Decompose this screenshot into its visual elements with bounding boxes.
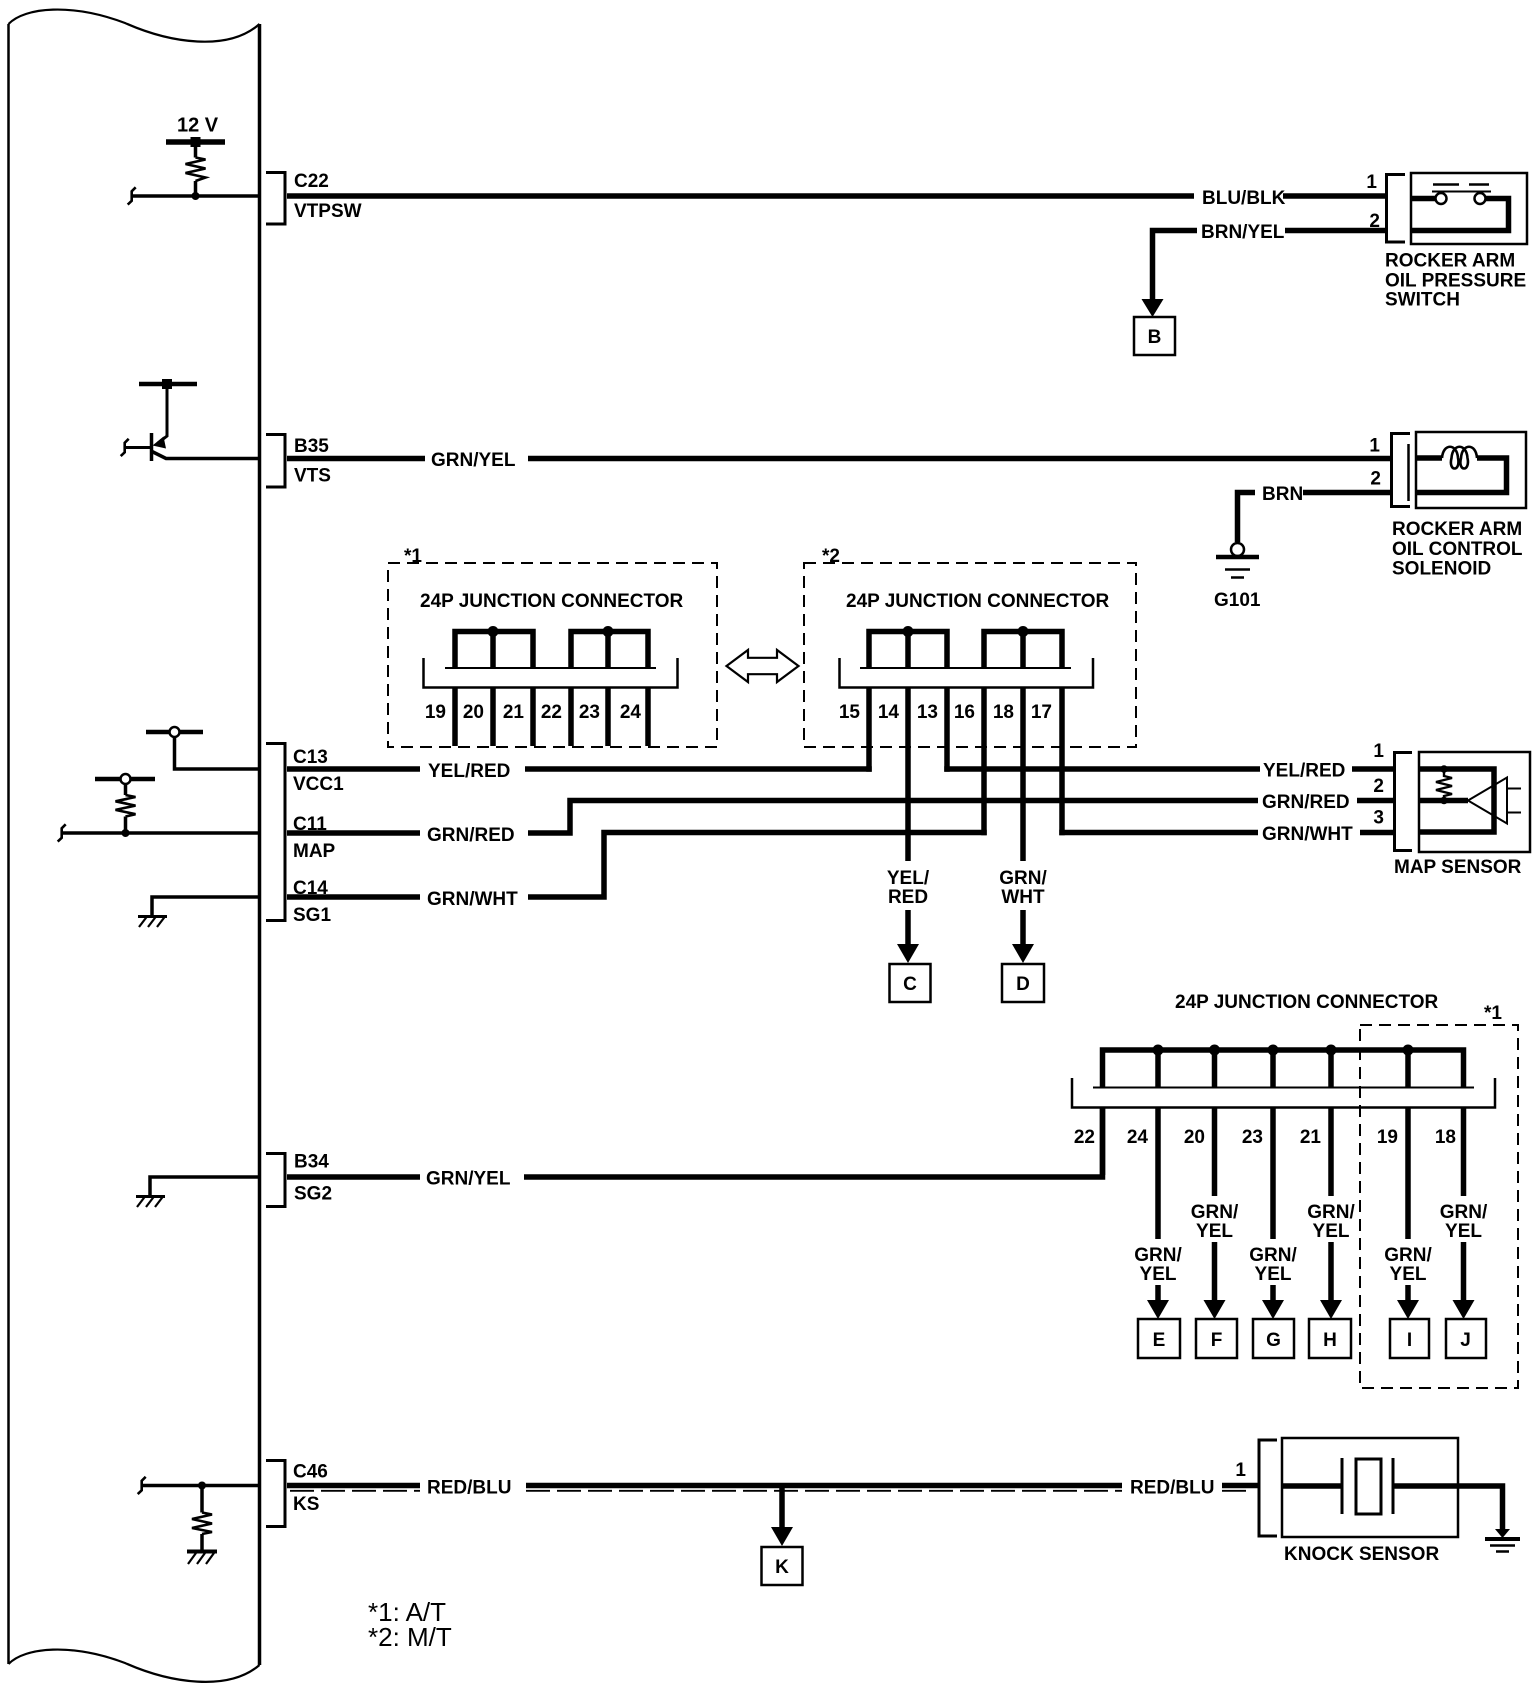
svg-text:BLU/BLK: BLU/BLK [1202, 188, 1286, 209]
svg-text:13: 13 [917, 702, 938, 723]
transistor emitter lead [152, 452, 259, 459]
wire GRN/RED (C11 to MAP pin 2) [287, 801, 1258, 834]
svg-text:SOLENOID: SOLENOID [1392, 559, 1491, 580]
svg-text:KNOCK SENSOR: KNOCK SENSOR [1284, 1544, 1439, 1565]
junction 2 bridge staple A (pins 15-13) [869, 632, 947, 669]
base lead hook [121, 439, 129, 456]
svg-text:17: 17 [1031, 702, 1052, 723]
junction 2 connector body tray [860, 667, 1071, 669]
svg-text:YEL: YEL [1390, 1264, 1427, 1285]
svg-text:YEL: YEL [1140, 1264, 1177, 1285]
ground (KS internal) [187, 1550, 217, 1554]
MAP internal signal wire [1419, 798, 1468, 804]
svg-text:24: 24 [620, 702, 642, 723]
connection box H [1309, 1319, 1351, 1358]
arrow to H [1328, 1242, 1334, 1301]
svg-text:20: 20 [463, 702, 484, 723]
svg-text:18: 18 [1435, 1127, 1456, 1148]
C11 supply tap ring [121, 774, 131, 784]
svg-text:G101: G101 [1214, 590, 1261, 611]
svg-text:OIL CONTROL: OIL CONTROL [1392, 539, 1523, 560]
wire end hook [128, 187, 136, 204]
VCC1 supply bar [146, 730, 203, 735]
ground (knock sensor) [1495, 1529, 1510, 1538]
switch contact circle right [1475, 193, 1486, 204]
svg-text:SWITCH: SWITCH [1385, 290, 1460, 311]
connection box C [890, 964, 931, 1002]
MAP amplifier triangle [1468, 778, 1507, 824]
arrow to D [1020, 910, 1026, 945]
solenoid internal wire loop [1416, 458, 1507, 493]
svg-text:GRN/YEL: GRN/YEL [426, 1169, 511, 1190]
transistor collector arrowhead [153, 437, 167, 449]
svg-text:22: 22 [541, 702, 562, 723]
svg-text:GRN/: GRN/ [1191, 1202, 1239, 1223]
svg-text:J: J [1460, 1330, 1471, 1351]
knock connector bracket [1259, 1440, 1277, 1536]
connection box G [1253, 1319, 1294, 1358]
ECM boundary right edge [258, 24, 262, 1665]
svg-text:YEL/RED: YEL/RED [428, 761, 510, 782]
svg-text:ROCKER ARM: ROCKER ARM [1385, 251, 1515, 272]
12V supply tap square [191, 137, 201, 147]
svg-text:C: C [903, 974, 917, 995]
wire end hook [58, 824, 66, 841]
ECM boundary left edge [7, 24, 10, 1664]
12V supply bar [166, 139, 225, 145]
svg-text:21: 21 [1300, 1127, 1322, 1148]
svg-text:21: 21 [503, 702, 525, 723]
transistor Q (collector lead) [158, 389, 167, 443]
svg-text:MAP: MAP [293, 841, 336, 862]
svg-text:2: 2 [1369, 211, 1380, 232]
wire C13 internal [175, 737, 260, 769]
svg-text:12 V: 12 V [177, 115, 219, 137]
arrow to C [905, 910, 911, 945]
connector B35 bracket [266, 435, 285, 488]
junction 3 pins below [1103, 1107, 1464, 1239]
svg-text:GRN/YEL: GRN/YEL [431, 450, 516, 471]
arrow to K [779, 1488, 785, 1528]
node junction dot [198, 1482, 206, 1490]
solenoid coil L [1442, 447, 1477, 469]
svg-text:GRN/RED: GRN/RED [427, 825, 515, 846]
solenoid connector mating line [1407, 444, 1410, 501]
svg-text:2: 2 [1373, 776, 1384, 797]
svg-text:YEL: YEL [1196, 1221, 1233, 1242]
junction 1 pins below [455, 687, 648, 746]
svg-text:GRN/: GRN/ [1307, 1202, 1355, 1223]
svg-text:3: 3 [1373, 808, 1384, 829]
arrow to G [1270, 1285, 1276, 1301]
wire RED/BLU (C46 to knock sensor) [287, 1483, 1258, 1489]
transistor base bar [150, 433, 154, 461]
svg-text:18: 18 [993, 702, 1014, 723]
svg-text:B: B [1148, 327, 1162, 348]
svg-text:E: E [1153, 1330, 1166, 1351]
svg-text:ROCKER ARM: ROCKER ARM [1392, 519, 1522, 540]
svg-text:GRN/: GRN/ [1384, 1245, 1432, 1266]
svg-text:23: 23 [579, 702, 600, 723]
shield dashed line [290, 1490, 1252, 1492]
svg-text:*1: *1 [404, 546, 422, 567]
svg-text:1: 1 [1235, 1460, 1246, 1481]
svg-text:MAP SENSOR: MAP SENSOR [1394, 857, 1522, 878]
MAP sensor box [1419, 752, 1530, 852]
svg-text:C46: C46 [293, 1462, 328, 1483]
svg-text:B35: B35 [294, 436, 329, 457]
ECM boundary top torn edge [9, 10, 260, 42]
svg-text:23: 23 [1242, 1127, 1263, 1148]
svg-text:GRN/WHT: GRN/WHT [427, 889, 518, 910]
svg-text:VTS: VTS [294, 466, 331, 487]
svg-text:22: 22 [1074, 1127, 1095, 1148]
svg-text:*2: M/T: *2: M/T [368, 1622, 452, 1652]
arrow to J [1461, 1242, 1467, 1301]
wire B34 internal [150, 1177, 259, 1196]
wire BRN (solenoid pin 2 to G101) [1238, 493, 1392, 543]
MAP internal supply wire [1419, 769, 1494, 832]
svg-text:GRN/: GRN/ [1440, 1202, 1488, 1223]
wire BLU/BLK (C22 to switch pin 1) [287, 193, 1386, 199]
double arrow between junction connectors [727, 650, 799, 682]
resistor (MAP pull) [124, 784, 128, 833]
svg-text:F: F [1211, 1330, 1223, 1351]
svg-text:RED: RED [888, 887, 928, 908]
connection box B [1134, 317, 1175, 355]
junction 1 bridge staple A (pins 19-21) [455, 632, 533, 669]
ground G101 terminal ring [1231, 543, 1244, 556]
MAP connector bracket [1395, 753, 1413, 851]
svg-text:G: G [1266, 1330, 1281, 1351]
wire GRN/YEL (B35 to solenoid pin 1) [287, 456, 1391, 462]
svg-text:BRN: BRN [1262, 484, 1303, 505]
connection box I [1390, 1319, 1429, 1358]
knock sensor box [1282, 1438, 1458, 1537]
ground (SG2 internal) [136, 1195, 165, 1198]
svg-text:*2: *2 [822, 546, 840, 567]
svg-text:SG1: SG1 [293, 905, 331, 926]
connection box J [1446, 1319, 1486, 1358]
node junction dot on MAP wire [122, 829, 130, 837]
switch movable bar [1432, 191, 1491, 193]
svg-text:RED/BLU: RED/BLU [1130, 1478, 1214, 1499]
connection box D [1002, 964, 1044, 1002]
dashed box *1 (A/T pins) [1360, 1025, 1518, 1388]
ECM boundary bottom torn edge [9, 1650, 260, 1682]
svg-text:B34: B34 [294, 1152, 329, 1173]
connection box E [1138, 1319, 1180, 1358]
svg-text:14: 14 [878, 702, 900, 723]
svg-text:YEL: YEL [1313, 1221, 1350, 1242]
svg-text:OIL PRESSURE: OIL PRESSURE [1385, 271, 1526, 292]
switch internal wire pin2 loop [1411, 199, 1509, 231]
solenoid internal wire pin1 [1416, 455, 1442, 461]
svg-text:GRN/: GRN/ [1134, 1245, 1182, 1266]
transistor base lead [124, 446, 151, 449]
dashed box *2 [804, 563, 1136, 747]
junction 1 connector body tray [445, 667, 656, 669]
svg-text:24: 24 [1127, 1127, 1149, 1148]
resistor (KS internal) [200, 1486, 204, 1552]
svg-text:YEL/RED: YEL/RED [1263, 761, 1345, 782]
connector C13/C11/C14 bracket [266, 744, 285, 921]
wire C11 internal [61, 831, 259, 835]
ground (SG1 internal) [138, 915, 167, 918]
svg-text:YEL: YEL [1255, 1264, 1292, 1285]
junction 3 bus bar [1103, 1050, 1464, 1088]
connection box F [1196, 1319, 1237, 1358]
connector C22 bracket [266, 173, 285, 225]
svg-text:C22: C22 [294, 171, 329, 192]
svg-text:24P JUNCTION CONNECTOR: 24P JUNCTION CONNECTOR [1175, 992, 1439, 1013]
svg-text:VCC1: VCC1 [293, 774, 344, 795]
svg-text:2: 2 [1370, 469, 1381, 490]
svg-text:YEL: YEL [1445, 1221, 1482, 1242]
svg-text:KS: KS [293, 1494, 319, 1515]
svg-text:*1: *1 [1484, 1003, 1502, 1024]
rocker arm oil control solenoid box [1416, 432, 1526, 508]
junction 3 bus taps [1158, 1050, 1408, 1088]
svg-text:16: 16 [954, 702, 975, 723]
connector C46 bracket [266, 1461, 285, 1527]
wire C14 internal [152, 897, 259, 916]
junction 1 bridge staple B (pins 22-24) [571, 632, 648, 669]
solenoid connector bracket [1392, 434, 1411, 507]
svg-text:24P JUNCTION CONNECTOR: 24P JUNCTION CONNECTOR [420, 591, 684, 612]
svg-text:GRN/: GRN/ [999, 868, 1047, 889]
svg-text:1: 1 [1369, 436, 1380, 457]
piezo element plates [1341, 1458, 1344, 1514]
VCC1 supply tap ring [170, 727, 180, 737]
switch connector bracket [1387, 175, 1406, 243]
wire YEL/RED (C13 to junction pin 15) [287, 766, 872, 772]
dashed box *1 [388, 563, 717, 747]
transistor supply tap square [162, 379, 172, 389]
arrow to I [1405, 1285, 1411, 1301]
svg-text:VTPSW: VTPSW [294, 201, 362, 222]
wire C22 internal [131, 194, 259, 198]
connector B34 bracket [266, 1154, 285, 1207]
C11 supply bar [95, 777, 155, 782]
rocker arm oil pressure switch box [1411, 173, 1527, 244]
connection box K [762, 1547, 803, 1585]
MAP internal resistor [1436, 769, 1452, 801]
svg-text:1: 1 [1366, 172, 1377, 193]
svg-text:WHT: WHT [1001, 887, 1045, 908]
switch internal wire pin1 side [1411, 196, 1435, 202]
node junction dot at C22 wire [192, 192, 200, 200]
wire GRN/WHT (C14 to junction pin 16) [287, 833, 987, 898]
switch contact circle left [1436, 193, 1447, 204]
svg-text:GRN/RED: GRN/RED [1262, 792, 1350, 813]
knock internal wire left [1282, 1483, 1342, 1489]
svg-text:GRN/WHT: GRN/WHT [1262, 824, 1353, 845]
wire YEL/RED (junction pin 13 to MAP pin 1) [944, 766, 1260, 772]
svg-text:I: I [1407, 1330, 1412, 1351]
arrow to F [1212, 1242, 1218, 1301]
wire end hook [138, 1477, 146, 1494]
svg-text:19: 19 [425, 702, 446, 723]
junction 3 connector body tray [1093, 1087, 1474, 1089]
transistor supply bar [139, 382, 197, 387]
junction 2 bridge staple B (pins 16-17) [984, 632, 1062, 669]
svg-text:GRN/: GRN/ [1249, 1245, 1297, 1266]
svg-text:20: 20 [1184, 1127, 1205, 1148]
svg-text:YEL/: YEL/ [887, 868, 930, 889]
svg-text:15: 15 [839, 702, 861, 723]
ground G101 symbol [1216, 555, 1259, 560]
arrow to B [1142, 299, 1164, 317]
svg-text:1: 1 [1373, 741, 1384, 762]
svg-text:D: D [1016, 974, 1030, 995]
arrow to E [1155, 1285, 1161, 1301]
svg-text:19: 19 [1377, 1127, 1398, 1148]
svg-text:RED/BLU: RED/BLU [427, 1478, 511, 1499]
svg-text:24P JUNCTION CONNECTOR: 24P JUNCTION CONNECTOR [846, 591, 1110, 612]
wire BRN/YEL (switch pin 2) [1153, 231, 1387, 301]
svg-text:BRN/YEL: BRN/YEL [1201, 222, 1285, 243]
knock internal wire right to ground [1393, 1486, 1503, 1529]
svg-text:SG2: SG2 [294, 1184, 332, 1205]
svg-text:H: H [1323, 1330, 1337, 1351]
switch actuator dashes [1433, 183, 1489, 186]
resistor R (pull-up to 12V) [194, 147, 198, 196]
svg-text:K: K [775, 1557, 789, 1578]
wire GRN/WHT (junction pin 17 to MAP pin 3) [1059, 830, 1258, 836]
wire GRN/YEL (B34 to junction pin 22) [287, 1108, 1103, 1177]
wire C46 internal [141, 1484, 259, 1488]
svg-text:C13: C13 [293, 747, 328, 768]
junction 2 pins below [869, 687, 1062, 861]
